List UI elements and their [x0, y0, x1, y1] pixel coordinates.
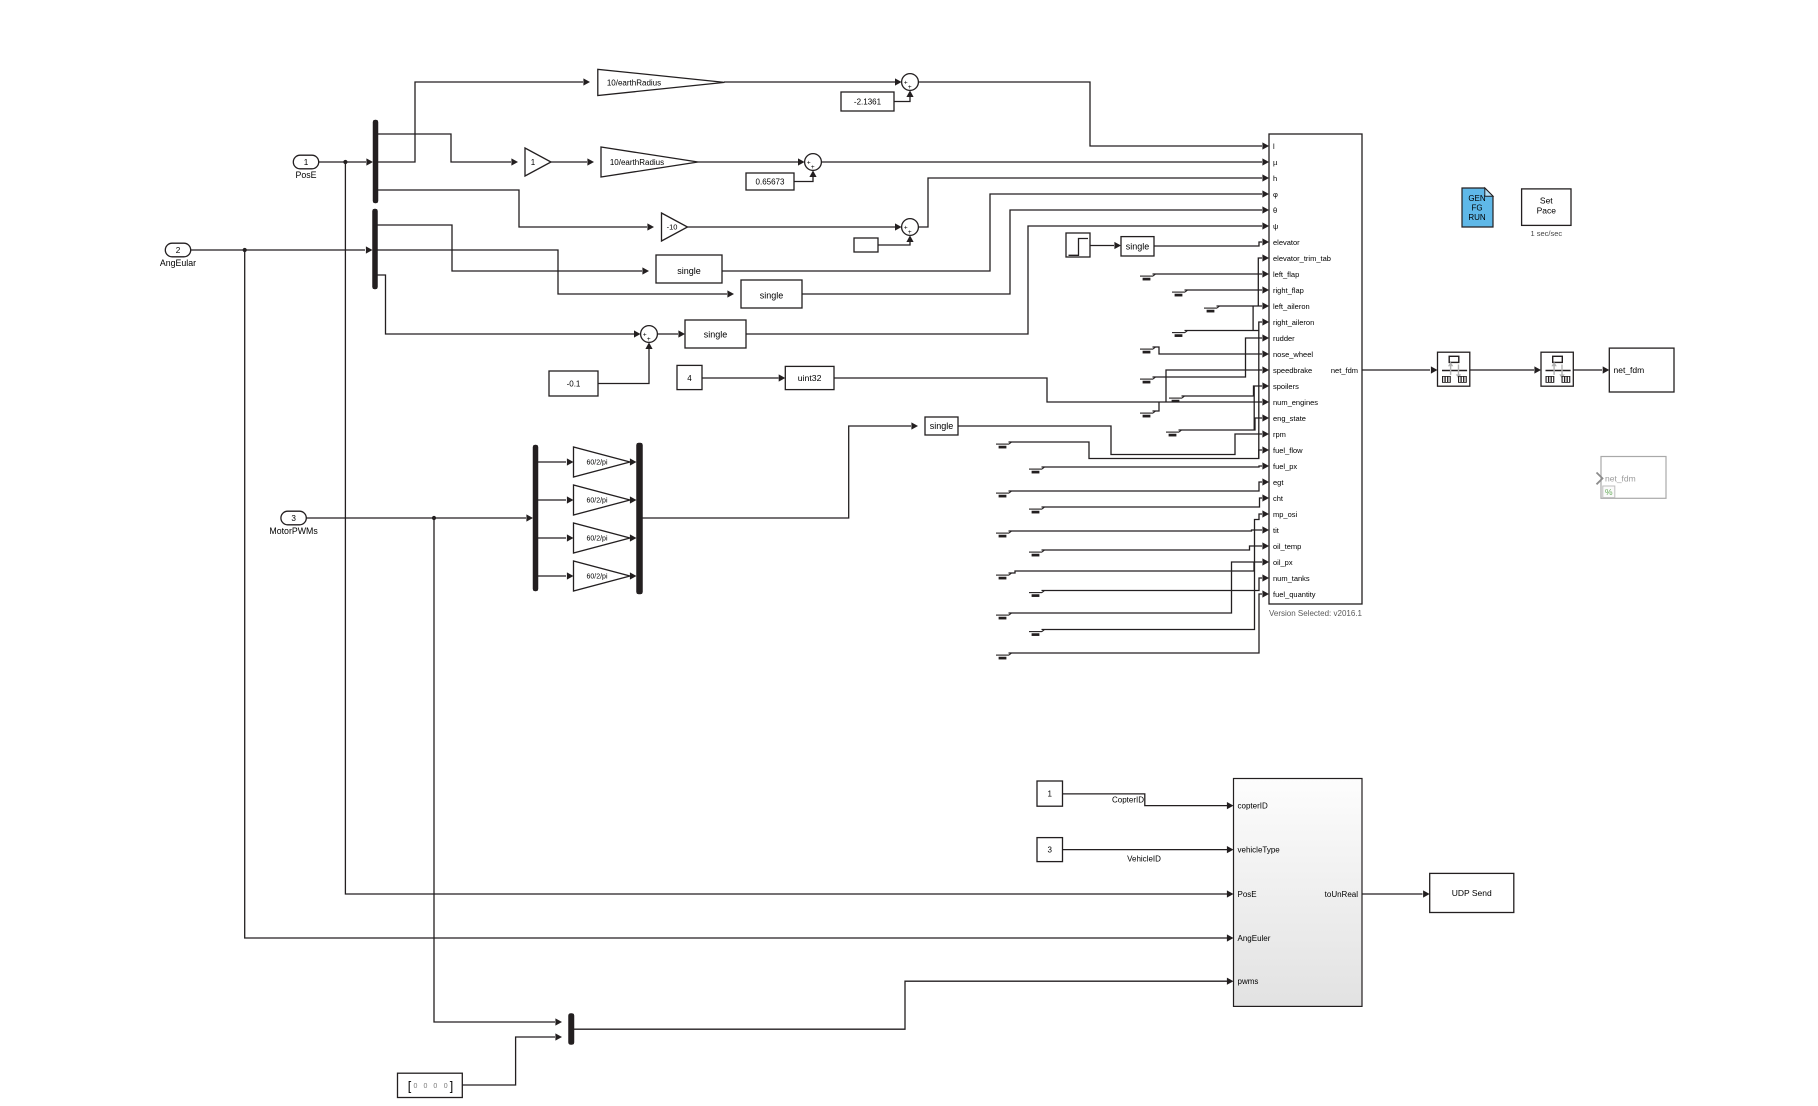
svg-text:eng_state: eng_state [1273, 414, 1306, 423]
svg-text:2: 2 [176, 246, 181, 255]
ground fuel_px [1029, 468, 1042, 470]
svg-text:-0.1: -0.1 [567, 380, 581, 389]
data type conversion single (phi) [656, 255, 722, 283]
svg-text:UDP Send: UDP Send [1452, 888, 1492, 898]
ground num_tanks [1029, 592, 1042, 594]
svg-text:0.65673: 0.65673 [756, 178, 785, 187]
svg-text:fuel_px: fuel_px [1273, 462, 1297, 471]
svg-text:FG: FG [1471, 204, 1482, 213]
gain 10/earthRadius (middle) [601, 147, 698, 177]
wire pack2 to outport net_fdm [1573, 369, 1602, 371]
subsystem toUnReal [1234, 779, 1363, 1007]
wire demux to gain 60/2/pi #1 [538, 461, 566, 463]
svg-text:RUN: RUN [1468, 213, 1486, 222]
data type conversion single (rpm) [925, 417, 958, 435]
svg-text:60/2/pi: 60/2/pi [586, 460, 607, 467]
wire MotorPWMs down to pwms mux [434, 518, 555, 1022]
data type conversion uint32 [785, 366, 834, 389]
wire AngEular down to subsystem AngEuler [245, 250, 1227, 938]
wire single to port rpm [958, 426, 1262, 455]
ground num_engines [1140, 412, 1153, 414]
wire branch to port elevator_trim_tab [1258, 258, 1262, 306]
svg-text:[: [ [408, 1080, 412, 1094]
wire branch to port speedbrake [1166, 370, 1262, 402]
svg-text:-2.1361: -2.1361 [854, 98, 882, 107]
svg-text:right_flap: right_flap [1273, 286, 1304, 295]
svg-text:vehicleType: vehicleType [1238, 845, 1281, 854]
sum (l) [902, 74, 919, 91]
svg-text:3: 3 [291, 514, 296, 523]
wire constant 4 to uint32 [702, 377, 779, 379]
wire constant -0.1 to sum [598, 344, 649, 384]
svg-text:num_engines: num_engines [1273, 398, 1318, 407]
commented-out net_fdm block [1601, 457, 1666, 499]
svg-text:10/earthRadius: 10/earthRadius [607, 78, 661, 87]
svg-text:PosE: PosE [295, 170, 316, 180]
wire gain to mux #4 [630, 575, 632, 577]
mux bar (rpm vector) [637, 443, 643, 594]
svg-text:ψ: ψ [1273, 222, 1278, 231]
gain 10/earthRadius (top) [598, 69, 725, 95]
svg-text:left_aileron: left_aileron [1273, 302, 1310, 311]
svg-text:-10: -10 [667, 223, 678, 232]
svg-text:AngEular: AngEular [160, 258, 196, 268]
svg-text:1 sec/sec: 1 sec/sec [1530, 229, 1562, 238]
wire sum to port h [918, 178, 1262, 227]
wire shared riser right_aileron to fuel_flow net [1259, 322, 1262, 459]
gain 1 [525, 148, 551, 176]
constant 4 [677, 365, 702, 389]
sum (h) [902, 219, 919, 236]
svg-text:cht: cht [1273, 494, 1284, 503]
wire toUnReal to UDP Send [1362, 893, 1423, 895]
constant -0.1 [549, 371, 598, 396]
inport 1 PosE [293, 155, 318, 169]
svg-text:Pace: Pace [1537, 206, 1557, 216]
svg-text:]: ] [450, 1080, 453, 1094]
ground fuel_quantity [996, 654, 1009, 656]
svg-text:1: 1 [1047, 790, 1052, 799]
constant -2.1361 [841, 92, 894, 111]
svg-text:single: single [704, 330, 728, 340]
wire constant 0.65673 to sum [794, 172, 813, 182]
wire blank constant to sum [878, 237, 910, 245]
ground right_aileron [1172, 332, 1185, 334]
ground mp_osi [1029, 631, 1042, 633]
wire demux to single (phi) [378, 225, 643, 271]
wire single to port psi [746, 226, 1262, 334]
ground rudder [1140, 378, 1153, 380]
wire mux to single (rpm) [643, 426, 912, 518]
FlightGear net_fdm pack block [1269, 134, 1362, 604]
gain 60/2/pi #4 [574, 561, 631, 591]
svg-text:single: single [677, 266, 701, 276]
svg-text:µ: µ [1273, 158, 1278, 167]
ground eng_state [1166, 431, 1179, 433]
svg-text:+: + [908, 229, 912, 236]
step block [1066, 233, 1090, 257]
ground egt [996, 492, 1009, 494]
svg-text:10/earthRadius: 10/earthRadius [610, 158, 664, 167]
gain 60/2/pi #3 [574, 523, 631, 553]
wire sum to port l [918, 82, 1262, 146]
ground nose_wheel [1140, 348, 1153, 350]
Set Pace block [1522, 189, 1571, 226]
wire single to port phi [722, 194, 1262, 271]
wire gain to mux #1 [630, 461, 632, 463]
svg-text:toUnReal: toUnReal [1325, 890, 1359, 899]
svg-text:θ: θ [1273, 206, 1277, 215]
svg-text:net_fdm: net_fdm [1614, 365, 1645, 375]
gain 60/2/pi #1 [574, 447, 631, 477]
wire demux to gain 60/2/pi #3 [538, 537, 566, 539]
ground oil_px [996, 614, 1009, 616]
svg-text:+: + [647, 336, 651, 343]
svg-text:fuel_flow: fuel_flow [1273, 446, 1303, 455]
sum (psi) [641, 326, 658, 343]
svg-text:3: 3 [1047, 846, 1052, 855]
svg-text:oil_temp: oil_temp [1273, 542, 1301, 551]
svg-text:φ: φ [1273, 190, 1278, 199]
wire sum to port mu [821, 161, 1262, 163]
wire pwms mux to subsystem pwms [574, 981, 1227, 1029]
gain -10 [662, 213, 688, 241]
inport 2 AngEular [165, 243, 190, 257]
svg-text:right_aileron: right_aileron [1273, 318, 1314, 327]
svg-text:copterID: copterID [1238, 801, 1268, 810]
svg-text:Set: Set [1540, 196, 1553, 206]
wire demux to gain 60/2/pi #4 [538, 575, 566, 577]
wire demux out1 to gain 1 [378, 134, 511, 162]
wire demux to gain 60/2/pi #2 [538, 499, 566, 501]
svg-text:CopterID: CopterID [1112, 796, 1144, 805]
wire pack1 to pack2 [1470, 369, 1534, 371]
ground oil_temp [1029, 551, 1042, 553]
data type conversion single (elevator) [1121, 237, 1154, 256]
svg-text:nose_wheel: nose_wheel [1273, 350, 1313, 359]
svg-text:0: 0 [423, 1083, 427, 1090]
ground left_aileron [1204, 307, 1217, 309]
constant 3 (VehicleID) [1037, 838, 1063, 862]
wire PosE to demux [319, 161, 366, 163]
wire demux out3 to gain -10 [378, 190, 647, 227]
wire gain 1 to gain 10/earthRadius [551, 161, 587, 163]
svg-text:tit: tit [1273, 526, 1280, 535]
ground spoilers [1169, 397, 1182, 399]
svg-text:left_flap: left_flap [1273, 270, 1299, 279]
wire demux to single (theta) [378, 250, 728, 294]
svg-text:60/2/pi: 60/2/pi [586, 498, 607, 505]
data type conversion single (theta) [741, 280, 802, 308]
svg-text:spoilers: spoilers [1273, 382, 1299, 391]
svg-text:rudder: rudder [1273, 334, 1295, 343]
svg-text:elevator: elevator [1273, 238, 1300, 247]
wire MotorPWMs to demux [307, 517, 527, 519]
wire gain to sum (l) [724, 81, 895, 83]
svg-text:60/2/pi: 60/2/pi [586, 574, 607, 581]
svg-text:Version Selected: v2016.1: Version Selected: v2016.1 [1269, 609, 1363, 618]
wire gain to sum (mu) [698, 161, 798, 163]
wire step to single (elevator) [1090, 245, 1114, 247]
outport net_fdm [1609, 348, 1674, 392]
ground fuel_flow [996, 443, 1009, 445]
constant [0 0 0 0] [398, 1073, 463, 1097]
mux bar (pwms) [569, 1014, 575, 1045]
wire gain to mux #3 [630, 537, 632, 539]
data type conversion single (psi) [685, 320, 746, 348]
wire net_fdm to pack1 [1362, 369, 1430, 371]
demux bar (AngEular) [373, 209, 378, 289]
wire demux to sum (psi) [378, 275, 635, 334]
demux bar (MotorPWMs) [533, 445, 538, 591]
svg-text:AngEuler: AngEuler [1238, 934, 1271, 943]
svg-text:mp_osi: mp_osi [1273, 510, 1298, 519]
svg-text:net_fdm: net_fdm [1331, 366, 1358, 375]
byte pack block 2 [1541, 352, 1573, 386]
svg-text:fuel_quantity: fuel_quantity [1273, 590, 1316, 599]
inport 3 MotorPWMs [281, 511, 306, 525]
svg-text:single: single [1126, 241, 1150, 251]
wire zeros to pwms mux [462, 1037, 555, 1085]
svg-text:0: 0 [414, 1083, 418, 1090]
UDP Send block [1430, 873, 1514, 912]
wire AngEular to demux [191, 249, 366, 251]
svg-text:MotorPWMs: MotorPWMs [269, 526, 318, 536]
wire PosE down to subsystem PosE [345, 162, 1227, 894]
ground cht [1029, 508, 1042, 510]
wire single to port theta [802, 210, 1262, 294]
svg-text:+: + [811, 164, 815, 171]
wire branch spoilers to eng_state net [1253, 386, 1255, 430]
svg-text:GEN: GEN [1468, 194, 1486, 203]
svg-text:1: 1 [304, 158, 309, 167]
constant 1 (CopterID) [1037, 781, 1063, 806]
svg-text:single: single [760, 291, 784, 301]
svg-text:pwms: pwms [1238, 977, 1259, 986]
ground tit [996, 532, 1009, 534]
svg-text:4: 4 [687, 374, 692, 383]
wire single to port elevator [1154, 242, 1262, 246]
svg-text:net_fdm: net_fdm [1605, 474, 1636, 484]
wire CopterID [1063, 794, 1228, 806]
wire branch left_aileron to right_aileron net [1252, 306, 1254, 331]
svg-text:egt: egt [1273, 478, 1284, 487]
blank constant [854, 238, 878, 252]
svg-text:h: h [1273, 174, 1277, 183]
svg-text:60/2/pi: 60/2/pi [586, 536, 607, 543]
svg-text:+: + [908, 84, 912, 91]
ground left_flap [1140, 275, 1153, 277]
GEN FG RUN block [1462, 188, 1493, 227]
wire VehicleID [1063, 849, 1228, 851]
wire gain to mux #2 [630, 499, 632, 501]
wire constant -2.1361 to sum [894, 92, 910, 102]
svg-text:1: 1 [531, 158, 536, 167]
demux bar (PosE) [373, 120, 378, 203]
byte pack block 1 [1438, 352, 1470, 386]
svg-text:0: 0 [444, 1083, 448, 1090]
wire demux out2 up to gain 10/earthRadius [378, 82, 583, 162]
svg-text:%: % [1605, 487, 1613, 497]
constant 0.65673 [746, 173, 794, 190]
svg-text:0: 0 [433, 1083, 437, 1090]
svg-text:speedbrake: speedbrake [1273, 366, 1312, 375]
svg-text:uint32: uint32 [798, 373, 822, 383]
sum (mu) [805, 154, 822, 171]
svg-text:num_tanks: num_tanks [1273, 574, 1310, 583]
svg-text:PosE: PosE [1238, 890, 1257, 899]
svg-text:rpm: rpm [1273, 430, 1286, 439]
wire sum to single (psi) [657, 333, 678, 335]
wire gain -10 to sum (h) [688, 226, 896, 228]
gain 60/2/pi #2 [574, 485, 631, 515]
svg-text:single: single [930, 421, 954, 431]
ground right_flap [1172, 291, 1185, 293]
wire uint32 to port num_engines [834, 378, 1262, 402]
svg-text:oil_px: oil_px [1273, 558, 1293, 567]
ground spare [996, 574, 1009, 576]
svg-text:VehicleID: VehicleID [1127, 855, 1161, 864]
svg-text:elevator_trim_tab: elevator_trim_tab [1273, 254, 1331, 263]
